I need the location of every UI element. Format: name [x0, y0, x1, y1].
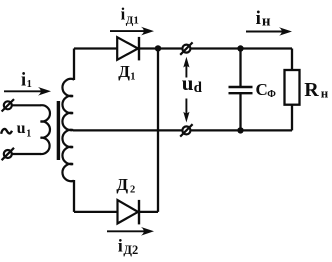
- svg-text:н: н: [262, 14, 271, 30]
- wire top-left vertical: [73, 49, 75, 81]
- svg-text:1: 1: [130, 72, 135, 83]
- svg-text:u: u: [182, 71, 194, 95]
- junction dot capacitor bottom: [237, 127, 243, 133]
- wire center-tap / bottom output rail: [73, 129, 292, 131]
- arrow i_d2: [107, 227, 154, 236]
- svg-text:i: i: [256, 8, 261, 29]
- terminal output bottom: [180, 124, 192, 136]
- terminal output top: [180, 42, 192, 54]
- label ~ (source tilde): [1, 129, 12, 134]
- svg-text:Д2: Д2: [123, 243, 138, 257]
- wire bottom diode rail: [74, 211, 158, 213]
- svg-text:Д1: Д1: [126, 14, 139, 26]
- svg-text:Д: Д: [118, 62, 130, 81]
- svg-text:2: 2: [130, 185, 135, 196]
- wire cathode bus vertical: [157, 49, 159, 212]
- svg-text:н: н: [321, 85, 329, 100]
- diode D2: [118, 200, 140, 225]
- capacitor Cf: [229, 49, 253, 131]
- svg-text:i: i: [21, 70, 26, 90]
- transformer primary winding: [41, 105, 50, 154]
- svg-text:1: 1: [27, 79, 32, 90]
- terminal input lower: [2, 148, 14, 160]
- wire input upper: [12, 104, 42, 106]
- terminal input upper: [2, 99, 14, 111]
- wire top rail: [74, 47, 292, 49]
- transformer secondary winding: [62, 79, 74, 181]
- svg-text:Д: Д: [116, 175, 128, 194]
- resistor Rn: [285, 49, 300, 131]
- diode D1: [117, 37, 139, 61]
- wire bottom-left vertical: [73, 180, 75, 212]
- svg-text:С: С: [256, 80, 268, 99]
- svg-text:d: d: [194, 80, 203, 96]
- arrow i_n: [246, 27, 292, 36]
- arrow i1: [4, 87, 51, 96]
- arrow i_d1: [110, 27, 154, 36]
- svg-text:Ф: Ф: [267, 89, 276, 100]
- svg-text:1: 1: [26, 129, 31, 140]
- junction dot capacitor top: [237, 45, 243, 51]
- wire input lower: [12, 153, 42, 155]
- svg-text:i: i: [118, 236, 123, 256]
- junction dot cathode bus / top rail: [155, 45, 161, 51]
- transformer core: [57, 101, 60, 160]
- svg-text:u: u: [17, 120, 26, 137]
- svg-text:R: R: [304, 79, 319, 101]
- arrow u_d double: [183, 57, 189, 123]
